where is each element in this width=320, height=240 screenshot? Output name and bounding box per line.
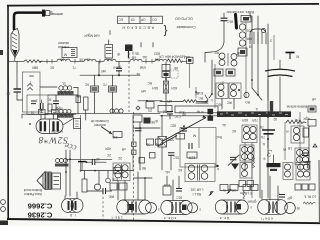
electrolytic triangle	[231, 164, 239, 170]
T3 labels	[177, 165, 219, 172]
svg-text:RE: RE	[142, 166, 146, 170]
chassis label C.2666	[28, 202, 53, 211]
box CN right	[308, 106, 316, 112]
capacitor C18	[221, 18, 234, 42]
speaker horn	[37, 172, 45, 190]
tuning gang top wire	[22, 114, 76, 118]
svg-text:.lAL: .lAL	[142, 55, 148, 59]
border frame top	[7, 4, 319, 6]
svg-text:s: s	[199, 208, 201, 212]
svg-text:l8: l8	[117, 52, 120, 56]
box1 contents	[28, 76, 34, 90]
svg-text:RO: RO	[162, 109, 167, 113]
svg-text:Haut-Parleur: Haut-Parleur	[23, 192, 42, 196]
svg-text:81C: 81C	[175, 196, 182, 200]
oscillator coil box2	[27, 95, 48, 115]
boxes above V4	[220, 185, 238, 193]
label 3 osc	[270, 39, 272, 43]
label OC PO GO	[175, 17, 193, 21]
boxes right of V4	[243, 185, 258, 191]
tube V4 label	[220, 216, 231, 220]
capacitor C4	[86, 157, 107, 165]
wire horizontal y75	[80, 74, 140, 76]
svg-text:Conmutador: Conmutador	[176, 25, 196, 29]
svg-text:2L 7.08: 2L 7.08	[79, 58, 90, 62]
label bobina movil	[23, 188, 42, 196]
svg-text:82: 82	[273, 117, 277, 121]
svg-text:98: 98	[60, 57, 64, 61]
choke coil above T2	[55, 159, 69, 167]
svg-text:E2R: E2R	[188, 156, 195, 160]
misc tiny labels band1	[167, 91, 258, 111]
svg-text:{: {	[163, 25, 167, 39]
tube V3	[161, 201, 201, 215]
capacitor C5	[116, 61, 122, 75]
handwritten annotation	[38, 134, 78, 154]
box R05 mid	[146, 102, 154, 109]
arrows above V4	[209, 190, 231, 196]
wire top big box	[45, 112, 160, 114]
box2 contents capacitors	[30, 99, 43, 115]
svg-text:8C: 8C	[49, 66, 54, 70]
svg-text:snat: snat	[140, 66, 146, 70]
IFT1 label box1	[214, 69, 223, 76]
vertical x162 lower	[161, 116, 163, 136]
svg-text:volumen: volumen	[94, 123, 106, 127]
capacitor C7	[102, 75, 116, 113]
coil pair R3	[283, 163, 293, 180]
vertical x133	[132, 122, 134, 170]
svg-text:81H: 81H	[151, 86, 158, 90]
cathode blob	[94, 171, 100, 190]
blob circle	[106, 171, 111, 183]
svg-text:2C: 2C	[106, 153, 111, 157]
capacitor C27	[181, 125, 187, 131]
IF transformer T3	[185, 164, 215, 182]
dashed link lower	[133, 112, 135, 220]
IF coil pair B	[286, 126, 305, 143]
svg-text:CO: CO	[152, 18, 157, 22]
box C13	[111, 167, 122, 181]
junction dots misc	[139, 115, 269, 129]
svg-text:C.2666: C.2666	[28, 202, 53, 211]
coil pair L3	[240, 163, 252, 179]
svg-text:81C: 81C	[226, 20, 233, 24]
svg-text:3: 3	[267, 147, 274, 158]
margin smudge bottom-left	[0, 221, 8, 226]
T-bar capacitor	[78, 162, 86, 171]
label RQ4	[303, 117, 310, 121]
dark blob C20	[144, 118, 156, 125]
padder capacitor bottom plate	[268, 60, 293, 112]
svg-text:6C: 6C	[84, 83, 89, 87]
svg-text:f: f	[279, 192, 280, 196]
svg-text:98: 98	[151, 120, 155, 124]
svg-text:82C: 82C	[169, 124, 176, 128]
rail ticks	[47, 59, 152, 64]
gang side box	[74, 119, 81, 129]
IFT1 secondary A	[216, 81, 228, 99]
small box right of L1	[76, 96, 81, 103]
capacitor C1	[14, 89, 23, 100]
svg-text:6C: 6C	[231, 129, 236, 133]
block 208	[125, 45, 133, 59]
svg-text:88R: 88R	[31, 66, 38, 70]
capacitor C6	[84, 75, 98, 113]
chassis label C.2636	[28, 211, 53, 220]
lamp box	[158, 137, 167, 171]
svg-text:2C: 2C	[117, 156, 122, 160]
label C1	[6, 92, 11, 96]
svg-text:*: *	[263, 154, 266, 160]
boxes below R4	[295, 184, 315, 190]
boxes below T4	[109, 183, 127, 199]
wire y100 right	[138, 100, 162, 102]
diamond mark	[136, 106, 152, 113]
svg-text:8O2: 8O2	[154, 52, 160, 56]
svg-text:7C: 7C	[102, 83, 107, 87]
dashed small box	[170, 70, 178, 78]
svg-text:6lR: 6lR	[167, 99, 172, 103]
svg-text:C1C: C1C	[174, 115, 181, 119]
switch diagonal short	[158, 136, 177, 147]
volume control arrow	[101, 127, 112, 135]
audio verticals	[65, 150, 71, 196]
capacitor C12	[167, 112, 181, 120]
svg-text:01C: 01C	[172, 156, 179, 160]
svg-text:1L: 1L	[244, 163, 248, 167]
svg-text:RoC: RoC	[215, 135, 222, 139]
svg-text:71R: 71R	[251, 118, 258, 122]
svg-text:e O e - e: e O e - e	[164, 216, 177, 220]
wire y159	[66, 158, 112, 160]
switch bar block	[208, 109, 214, 121]
margin smudge left low circles	[1, 200, 6, 212]
vertical x140	[139, 122, 141, 170]
capacitor right top	[302, 153, 309, 156]
svg-text:86: 86	[182, 112, 186, 116]
volume control label	[91, 119, 109, 127]
resistor R6	[82, 171, 87, 192]
gang link diagonal	[29, 118, 74, 125]
border frame left	[7, 5, 9, 219]
svg-text:M: M	[64, 53, 67, 57]
dashed link upper	[128, 44, 130, 112]
svg-text:ul ap: ul ap	[196, 110, 203, 114]
svg-text:3: 3	[270, 39, 272, 43]
thick bus bar right	[270, 101, 273, 112]
svg-text:lnR: lnR	[101, 69, 106, 73]
coil L1	[58, 82, 74, 95]
vertical x215	[214, 64, 216, 108]
svg-text:gnbol: gnbol	[113, 66, 121, 70]
capacitor right bottom	[305, 162, 311, 169]
IFT1 primary coils	[213, 51, 240, 67]
label R5	[104, 147, 111, 158]
svg-text:lLL: lLL	[222, 123, 226, 127]
svg-text:1R: 1R	[287, 146, 292, 150]
svg-text:A.B.C.D.E.F.G.H: A.B.C.D.E.F.G.H	[122, 26, 154, 30]
svg-text:RO: RO	[245, 100, 250, 104]
box R9	[162, 65, 170, 71]
resistor R4	[76, 94, 88, 120]
IFT1 leads	[209, 60, 234, 109]
svg-text:Comando de: Comando de	[91, 119, 109, 123]
vertical bus x80	[80, 115, 82, 172]
svg-text:L89 AlO4 A84 .CA: L89 AlO4 A84 .CA	[158, 55, 185, 59]
box contents M	[187, 128, 199, 160]
gang trimmer 1	[39, 109, 46, 114]
IF coil pair A	[242, 125, 257, 143]
input jack M	[62, 48, 77, 58]
tube lineup text	[142, 55, 185, 59]
antenna plug connector	[42, 10, 52, 17]
svg-text:lR: lR	[236, 51, 240, 55]
svg-text:M: M	[193, 134, 196, 138]
small zigzag bottom right	[303, 202, 316, 204]
output transformer T2 winding	[52, 173, 61, 189]
label antena	[52, 12, 63, 16]
resistor boxes mid	[146, 139, 162, 146]
svg-text:oR: oR	[311, 97, 316, 101]
gang label	[51, 130, 63, 134]
padder capacitor top plate	[265, 69, 295, 71]
svg-text:311: 311	[112, 135, 117, 139]
IFT1 label box2	[226, 69, 235, 76]
osc box lower	[238, 48, 247, 56]
capacitor C10	[168, 153, 179, 170]
svg-text:OC.PO.GO: OC.PO.GO	[175, 17, 193, 21]
svg-text:RlC: RlC	[213, 51, 219, 55]
switch diagonal long	[163, 115, 206, 141]
handwritten 3	[263, 147, 273, 160]
svg-text:C.2636: C.2636	[28, 211, 53, 220]
text right bottom row	[304, 195, 317, 199]
gang section CV2	[41, 114, 59, 131]
svg-text:woteche: woteche	[51, 130, 63, 134]
svg-text:Bobina movil: Bobina movil	[24, 188, 43, 192]
rail end box C17	[187, 57, 194, 88]
ground bar	[267, 155, 281, 171]
svg-text:ll: ll	[211, 98, 213, 102]
svg-text:RlR: RlR	[246, 37, 252, 41]
svg-text:s: s	[250, 206, 252, 210]
lineup text extra	[132, 52, 160, 56]
wire mid horizontal	[48, 94, 78, 96]
right column small box	[303, 128, 317, 147]
tube V1	[62, 199, 84, 213]
IF coil pair R2	[287, 146, 309, 165]
svg-text:EC: EC	[118, 18, 123, 22]
svg-text:L eR 101: L eR 101	[190, 188, 203, 192]
svg-text:4QR: 4QR	[303, 117, 310, 121]
svg-text:7A: 7A	[260, 135, 265, 139]
svg-text:2: 2	[36, 99, 38, 103]
main top rail	[9, 59, 187, 63]
svg-text:1C: 1C	[6, 92, 11, 96]
svg-text:s: s	[158, 208, 160, 212]
svg-text:ruRl MguR: ruRl MguR	[84, 34, 100, 38]
arc wire to x205	[205, 42, 224, 62]
misc tiny labels band4	[117, 119, 158, 170]
label Conmutador	[176, 25, 196, 29]
svg-text:ml: ml	[136, 72, 140, 76]
tube V1 label	[70, 213, 76, 217]
svg-text:ACA: ACA	[183, 55, 190, 59]
tube V2	[117, 200, 160, 214]
svg-text:41C: 41C	[215, 103, 222, 107]
svg-text:E LRAm: E LRAm	[240, 191, 252, 195]
misc tiny labels lineup	[117, 52, 190, 60]
svg-text:l6: l6	[155, 119, 158, 123]
margin smudge left mid	[0, 50, 3, 55]
osc block dark	[236, 13, 251, 28]
svg-text:tL: tL	[262, 142, 265, 146]
boxes below L3	[239, 181, 254, 196]
small zigzag above V4	[243, 191, 245, 199]
label R18 R16	[151, 86, 177, 90]
antenna lead-in wire	[14, 13, 42, 30]
svg-text:RC: RC	[198, 96, 203, 100]
svg-text:l2u g: l2u g	[132, 52, 139, 56]
svg-text:l0l: l0l	[249, 45, 252, 49]
label R17	[164, 170, 170, 174]
input jack label	[58, 41, 69, 49]
resistor R21 zigzag	[286, 118, 306, 124]
trimmer cap right	[228, 153, 241, 166]
tube V2 label	[112, 216, 123, 220]
IFT1 secondary B	[229, 83, 241, 99]
resistor R12	[164, 81, 169, 93]
tube V5 label	[261, 216, 273, 220]
band lever label bar	[217, 111, 291, 117]
svg-text:l - 8: l - 8	[70, 213, 76, 217]
svg-text:OR: OR	[231, 188, 236, 192]
svg-text:RA.L l: RA.L l	[192, 192, 201, 196]
tube V5	[258, 200, 300, 215]
label A7	[260, 135, 265, 146]
misc tiny labels band2	[101, 69, 152, 93]
svg-text:b: b	[217, 167, 219, 171]
svg-text:Er: Er	[221, 188, 225, 192]
svg-text:7L: 7L	[72, 66, 76, 70]
coil pair R4	[296, 163, 310, 181]
tube V4	[215, 200, 252, 214]
label RO right	[311, 97, 316, 101]
svg-text:antena: antena	[52, 12, 63, 16]
wire L1 down	[74, 88, 78, 115]
svg-text:loR: loR	[141, 89, 146, 93]
svg-text:as: as	[296, 207, 300, 211]
vertical x166	[165, 62, 167, 112]
band switch letters	[122, 26, 154, 30]
svg-text:R: R	[286, 129, 289, 133]
osc diagonal	[251, 79, 262, 100]
band table boxes	[118, 16, 163, 23]
coupling coil on box top	[110, 109, 123, 113]
svg-text:alcance: alcance	[58, 41, 69, 45]
svg-text:31: 31	[146, 142, 150, 146]
svg-text:61H: 61H	[170, 86, 177, 90]
svg-text:8C: 8C	[194, 91, 199, 95]
svg-text:42R: 42R	[104, 147, 111, 151]
svg-text:o1L: o1L	[164, 170, 170, 174]
wire y170	[80, 170, 133, 172]
box R10	[162, 72, 170, 78]
svg-text:01R: 01R	[56, 107, 63, 111]
V5 leads up	[262, 176, 278, 200]
border frame right lower	[318, 160, 320, 222]
mid components M3	[196, 95, 208, 104]
big box center	[180, 128, 216, 168]
wire antenna to rail	[14, 58, 16, 62]
svg-text:M: M	[296, 55, 299, 59]
misc tiny labels band3	[215, 123, 286, 151]
text mains left of V5	[247, 200, 256, 204]
svg-text:6C: 6C	[177, 168, 182, 172]
potentiometer R11	[112, 132, 122, 139]
V1 leads up	[65, 192, 77, 199]
resistor R16	[158, 106, 218, 115]
labels R18 R17 row	[241, 117, 277, 122]
wire drop C1	[16, 61, 18, 88]
label C14	[215, 101, 232, 107]
osc verticals	[246, 16, 274, 100]
svg-text:gniam: gniam	[247, 200, 256, 204]
svg-text:e O e * l: e O e * l	[261, 216, 273, 220]
label bobina antena	[286, 105, 307, 109]
tube V3 label	[164, 216, 177, 220]
wire box to L1	[40, 86, 57, 88]
svg-text:oR: oR	[121, 147, 126, 151]
label R13	[163, 183, 182, 200]
box right edge	[308, 120, 316, 127]
osc coil b	[239, 32, 252, 41]
svg-text:' A e - e: ' A e - e	[220, 216, 231, 220]
svg-text:RC: RC	[147, 81, 152, 85]
svg-text:Bobina antena: Bobina antena	[286, 105, 307, 109]
capacitor C30	[133, 128, 160, 131]
svg-text:1L: 1L	[62, 82, 66, 86]
dashed link bottom-left	[102, 188, 104, 220]
brace	[163, 25, 167, 39]
svg-text:S2W*8: S2W*8	[38, 134, 68, 145]
osc coil c	[239, 40, 252, 49]
svg-text:entrada: entrada	[58, 45, 69, 49]
svg-text:OP: OP	[141, 18, 146, 22]
capacitor C8	[87, 188, 112, 194]
svg-text:3C: 3C	[47, 98, 52, 102]
capacitor C2	[47, 95, 59, 113]
wire rail drop x99	[98, 61, 100, 76]
svg-text:L 8 e - t: L 8 e - t	[112, 216, 123, 220]
osc cathode circle	[244, 92, 249, 97]
wire bus y178	[134, 177, 153, 179]
svg-text:E1R: E1R	[163, 183, 170, 187]
oscillator coil box1	[23, 72, 41, 112]
label tape	[286, 53, 300, 60]
svg-text:Pl: Pl	[283, 147, 286, 151]
gang trimmer 2	[52, 109, 59, 114]
capacitor mid right	[262, 130, 275, 148]
coil pair L2	[240, 145, 254, 161]
wire y108	[160, 87, 208, 103]
small zigzag left	[253, 157, 255, 168]
output transformer T2 core	[46, 172, 51, 190]
rail labels	[31, 57, 178, 69]
svg-text:lL: lL	[255, 107, 258, 111]
svg-text:4R: 4R	[76, 94, 81, 98]
